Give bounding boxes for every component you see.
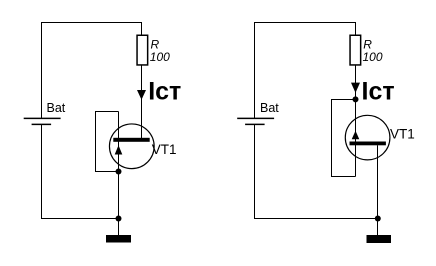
svg-text:Bat: Bat xyxy=(47,101,66,115)
svg-text:100: 100 xyxy=(150,50,170,64)
svg-text:Iст: Iст xyxy=(148,78,181,106)
svg-text:100: 100 xyxy=(363,50,383,64)
svg-text:VT1: VT1 xyxy=(390,127,415,142)
svg-text:VT1: VT1 xyxy=(152,142,177,157)
svg-text:Iст: Iст xyxy=(362,78,395,106)
svg-text:Bat: Bat xyxy=(260,101,279,115)
